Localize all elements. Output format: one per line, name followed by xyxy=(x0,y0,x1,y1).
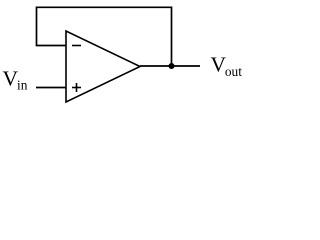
output wire xyxy=(140,65,200,67)
junction node dot xyxy=(169,63,175,69)
feedback wire (output node up, across top, down to inverting input) xyxy=(37,7,172,66)
svg-text:Vout: Vout xyxy=(211,53,243,79)
non-inverting input plus sign xyxy=(72,83,81,92)
op-amp U1 (triangle) xyxy=(66,31,140,102)
input wire Vin to + input xyxy=(36,87,66,89)
svg-text:Vin: Vin xyxy=(3,67,28,93)
inverting input minus sign xyxy=(72,45,81,47)
